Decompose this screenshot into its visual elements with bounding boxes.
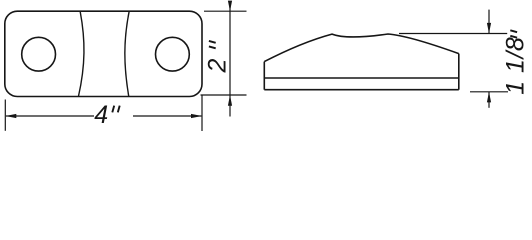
svg-text:2: 2 (204, 59, 232, 74)
2in dimension line (229, 1, 231, 95)
2in bottom arrowhead (outside, pointing up) (228, 95, 232, 106)
2in top extension line (204, 10, 247, 12)
1-1/8in top arrowhead (pointing down) (487, 23, 491, 34)
right hole (156, 37, 190, 71)
left waist curve (79, 12, 84, 97)
svg-text:4: 4 (94, 101, 108, 129)
4in left arrowhead (5, 114, 16, 118)
front view: rounded plate outline (5, 11, 202, 96)
1-1/8in bottom arrowhead (pointing up) (487, 92, 491, 103)
left hole (22, 37, 56, 71)
1-1/8in bottom arrow shaft (488, 92, 490, 108)
1-1/8in bottom extension line (470, 91, 508, 93)
2in bottom arrow shaft (229, 95, 231, 117)
side view: base bottom line (264, 89, 459, 91)
1-1/8in top arrow shaft (488, 10, 490, 34)
4in dimension line right segment (133, 115, 201, 117)
4in double-prime mark (112, 106, 119, 113)
4in left extension line (4, 100, 6, 131)
4in right extension line (201, 95, 203, 131)
4in dimension line left segment (6, 115, 94, 117)
side view: base top line (264, 77, 459, 79)
1-1/8in double-prime mark (510, 30, 517, 37)
2in double-prime mark (209, 41, 216, 48)
4in right arrowhead (191, 114, 202, 118)
1-1/8in top extension line (399, 33, 507, 35)
side view: right end edge (458, 54, 460, 90)
side view: top profile curve (264, 34, 459, 62)
svg-text:1 1/8: 1 1/8 (502, 37, 530, 95)
right waist curve (125, 12, 129, 97)
2in top arrowhead (outside, pointing down) (228, 1, 232, 12)
2in bottom extension line (201, 94, 247, 96)
side view: left end edge (263, 62, 265, 90)
